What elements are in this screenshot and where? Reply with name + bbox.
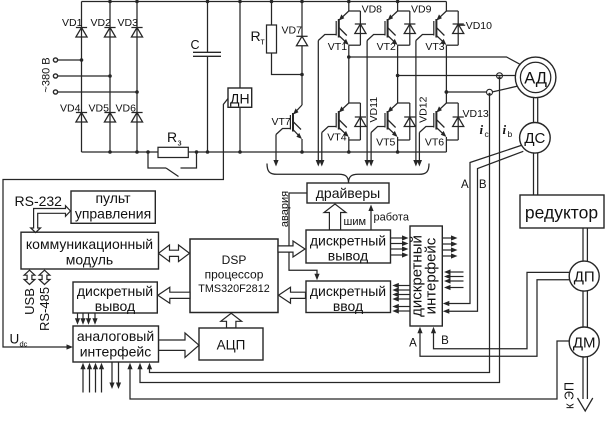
arrow дискретный вывод to интерфейс bbox=[391, 243, 404, 245]
block коммуникационный модуль bbox=[21, 232, 159, 269]
svg-text:т: т bbox=[261, 37, 265, 47]
wire: inverter leg 3 midpoint bbox=[445, 45, 447, 103]
svg-text:VD9: VD9 bbox=[411, 4, 432, 16]
svg-text:VT3: VT3 bbox=[425, 41, 444, 53]
wire: VT1 gate to drivers bbox=[317, 41, 319, 162]
wire: bottom DC bus rail (left of Rz) bbox=[82, 151, 159, 153]
arrow дискретный вывод to аналоговый интерфейс bbox=[82, 313, 84, 320]
svg-text:VD4: VD4 bbox=[60, 103, 81, 115]
diode VD10 (freewheel top) bbox=[457, 11, 459, 45]
svg-text:ДМ: ДМ bbox=[573, 334, 596, 351]
block дискретный вывод (левый) bbox=[73, 282, 157, 313]
svg-text:АЦП: АЦП bbox=[217, 338, 246, 353]
svg-text:з: з bbox=[178, 138, 182, 148]
block пульт управления bbox=[71, 191, 155, 223]
arrow external input to интерфейс bbox=[449, 287, 464, 289]
wire: VT2 gate to drivers bbox=[366, 41, 368, 162]
processor DSP TMS320F2812 bbox=[190, 239, 278, 313]
svg-text:В: В bbox=[479, 179, 487, 191]
wire: ib to analog interface bbox=[140, 79, 500, 383]
svg-text:VT7: VT7 bbox=[272, 116, 291, 128]
diode VD12 (freewheel bottom) bbox=[398, 102, 410, 104]
arrow интерфейс to дискретный ввод bbox=[397, 298, 410, 300]
shaft ДС-редуктор bbox=[533, 153, 535, 195]
transistor VT4 bbox=[340, 103, 349, 111]
svg-text:коммуникационный: коммуникационный bbox=[26, 236, 153, 252]
wire: inverter leg 1 top connection bbox=[348, 2, 350, 12]
transistor VT1 bbox=[340, 11, 349, 19]
shaft АД-ДС bbox=[533, 98, 535, 123]
svg-text:RS-485: RS-485 bbox=[37, 287, 52, 331]
diode VD4 bbox=[76, 112, 87, 114]
svg-text:пульт: пульт bbox=[95, 190, 131, 206]
wire: авария from драйверы to дискретный ввод bbox=[289, 193, 317, 275]
svg-text:VD1: VD1 bbox=[62, 17, 83, 29]
transistor VT7 (brake chopper IGBT) bbox=[301, 75, 303, 106]
shaft output к ЭП (open arrow) bbox=[582, 357, 584, 399]
svg-text:R: R bbox=[251, 28, 261, 44]
arrow интерфейс output right bbox=[442, 255, 452, 257]
diode VD11 (freewheel bottom) bbox=[349, 102, 361, 104]
shaft редуктор-ДП bbox=[582, 228, 584, 261]
svg-text:А: А bbox=[461, 179, 469, 191]
svg-text:VD2: VD2 bbox=[91, 17, 112, 29]
diode VD13 (freewheel bottom) bbox=[446, 102, 458, 104]
wire: ДС output B bbox=[447, 151, 523, 311]
input terminal L2 bbox=[53, 74, 57, 78]
block дискретный ввод bbox=[306, 281, 391, 313]
wire: phase C to motor bbox=[446, 91, 486, 93]
analog input line bbox=[95, 367, 97, 393]
svg-text:VD12: VD12 bbox=[418, 96, 430, 122]
svg-text:VT2: VT2 bbox=[377, 41, 396, 53]
bypass contactor switch across Rз bbox=[148, 152, 166, 168]
diode VD9 (freewheel top) bbox=[409, 11, 411, 45]
hollow arrow DSP - дискретный вывод (left) bbox=[158, 287, 190, 303]
arrow интерфейс to дискретный ввод bbox=[397, 285, 410, 287]
svg-text:вывод: вывод bbox=[95, 298, 135, 314]
svg-text:шим: шим bbox=[344, 216, 367, 228]
analog output line bbox=[118, 362, 120, 384]
wire: rectifier leg 1 bbox=[81, 2, 83, 153]
arrow дискретный вывод to аналоговый интерфейс bbox=[88, 313, 90, 320]
diode VD3 bbox=[131, 27, 142, 29]
wire: ДП output 2 (A) to discrete interface bbox=[420, 280, 569, 357]
svg-text:АД: АД bbox=[524, 69, 547, 87]
arrow дискретный вывод to интерфейс bbox=[391, 248, 404, 250]
wire: phase B to motor bbox=[398, 75, 521, 77]
svg-text:DSP: DSP bbox=[222, 253, 247, 267]
arrow интерфейс output right bbox=[442, 237, 452, 239]
arrow external input to интерфейс bbox=[449, 271, 464, 273]
arrow external input to интерфейс bbox=[449, 280, 464, 282]
input terminal L3 bbox=[53, 90, 57, 94]
wire: inverter leg 3 top connection bbox=[445, 2, 447, 12]
svg-text:к ЭП: к ЭП bbox=[563, 382, 577, 409]
arrow интерфейс output right bbox=[442, 243, 452, 245]
transistor VT3 bbox=[438, 11, 447, 19]
wire: VT6 gate to drivers bbox=[418, 133, 420, 162]
arrow интерфейс to дискретный ввод bbox=[397, 306, 410, 308]
svg-text:VT6: VT6 bbox=[425, 137, 444, 149]
wire: ДС output A bbox=[447, 145, 521, 303]
wire: ДМ output to analog interface bbox=[130, 341, 569, 399]
svg-text:i: i bbox=[480, 122, 484, 137]
gearbox редуктор bbox=[520, 195, 604, 228]
junction on bottom rail at leg2 bbox=[108, 150, 112, 154]
hollow arrow USB bbox=[24, 270, 35, 284]
wire: ic to analog interface bbox=[150, 95, 490, 372]
resistor Rт (brake resistor) bbox=[271, 2, 273, 26]
svg-text:VD11: VD11 bbox=[368, 97, 380, 123]
svg-text:ДП: ДП bbox=[574, 269, 595, 286]
torque sensor ДМ bbox=[569, 327, 599, 357]
svg-text:VT5: VT5 bbox=[376, 137, 395, 149]
wire: VT7 gate to drivers bbox=[275, 135, 277, 162]
svg-text:модуль: модуль bbox=[66, 252, 113, 268]
svg-text:ДН: ДН bbox=[230, 91, 250, 107]
hollow arrow аналоговый интерфейс - АЦП bbox=[159, 333, 200, 357]
diode VD8 (freewheel top) bbox=[359, 11, 361, 45]
svg-text:RS-232: RS-232 bbox=[15, 193, 63, 209]
wire: inverter leg 2 midpoint bbox=[397, 45, 399, 103]
analog input line bbox=[101, 367, 103, 393]
motor АД (induction motor) bbox=[515, 57, 556, 98]
hollow arrow дискретный ввод - DSP bbox=[279, 287, 306, 303]
svg-text:i: i bbox=[503, 122, 507, 137]
arrow external input to интерфейс bbox=[449, 276, 464, 278]
diode VD5 bbox=[104, 112, 115, 114]
svg-text:работа: работа bbox=[374, 212, 410, 224]
svg-text:~380 В: ~380 В bbox=[41, 57, 53, 92]
svg-text:интерфейс: интерфейс bbox=[423, 237, 440, 314]
svg-text:VT4: VT4 bbox=[327, 132, 346, 144]
wire: VT3 gate to drivers bbox=[415, 41, 417, 162]
arrow работа to драйверы bbox=[370, 210, 372, 231]
resistor Rз (charging resistor in DC bus) bbox=[158, 147, 188, 157]
svg-text:VD5: VD5 bbox=[89, 103, 110, 115]
svg-text:C: C bbox=[191, 38, 200, 52]
current sensor tap ib on phase B bbox=[497, 73, 503, 79]
diode VD6 bbox=[131, 112, 142, 114]
svg-text:вывод: вывод bbox=[328, 248, 368, 264]
svg-text:VD3: VD3 bbox=[118, 17, 139, 29]
analog input line bbox=[82, 367, 84, 393]
svg-text:аналоговый: аналоговый bbox=[77, 328, 154, 344]
svg-text:VD8: VD8 bbox=[362, 4, 383, 16]
wire: ДП output 1 (B) to discrete interface bbox=[434, 272, 570, 348]
shaft ДП-ДМ bbox=[582, 291, 584, 327]
analog output line bbox=[111, 362, 113, 384]
hollow arrow RS-485 bbox=[39, 270, 50, 284]
wire: inverter leg 2 top connection bbox=[397, 2, 399, 12]
brace: gate leads to драйверы bbox=[267, 164, 429, 184]
svg-text:VD7: VD7 bbox=[282, 25, 303, 37]
block дискретный вывод bbox=[306, 230, 391, 263]
diode VD7 (brake) bbox=[301, 2, 303, 37]
junctions on bottom rail at inverter legs bbox=[347, 150, 351, 154]
block дискретный интерфейс bbox=[410, 226, 442, 326]
arrow интерфейс output right bbox=[442, 249, 452, 251]
voltage sensor ДН bbox=[239, 2, 241, 89]
input terminal L1 bbox=[53, 58, 57, 62]
block драйверы bbox=[307, 183, 389, 203]
wire: ДН output to analog interface (Udc) bbox=[3, 99, 228, 348]
svg-text:VT1: VT1 bbox=[328, 41, 347, 53]
block АЦП bbox=[199, 328, 263, 360]
diode VD1 bbox=[76, 27, 87, 29]
capacitor C (DC link) bbox=[207, 2, 209, 53]
svg-text:U: U bbox=[10, 332, 20, 347]
svg-text:USB: USB bbox=[22, 288, 37, 315]
hollow arrow коммуникационный модуль - DSP bbox=[159, 245, 190, 262]
junction on bottom rail at leg3 bbox=[135, 150, 139, 154]
svg-text:управления: управления bbox=[75, 206, 151, 222]
svg-text:ДС: ДС bbox=[524, 130, 545, 147]
svg-text:В: В bbox=[441, 335, 449, 347]
svg-text:VD13: VD13 bbox=[463, 108, 489, 120]
diode VD2 bbox=[104, 27, 115, 29]
arrow дискретный вывод to интерфейс bbox=[391, 237, 404, 239]
svg-text:дискретный: дискретный bbox=[310, 283, 386, 299]
svg-text:дискретный: дискретный bbox=[310, 233, 386, 249]
arrow дискретный вывод to аналоговый интерфейс bbox=[77, 313, 79, 320]
wire: phase A to motor bbox=[349, 57, 525, 67]
wire: VT4 gate to drivers bbox=[321, 133, 323, 162]
hollow arrow АЦП - DSP bbox=[221, 313, 242, 328]
speed sensor ДС bbox=[520, 123, 551, 154]
svg-text:А: А bbox=[409, 338, 417, 350]
hollow arrow DSP - дискретный вывод bbox=[278, 241, 305, 257]
hollow elbow arrow RS-232 (модуль - пульт) bbox=[31, 206, 71, 233]
wire: VT5 gate to drivers bbox=[370, 133, 372, 162]
svg-text:VD10: VD10 bbox=[466, 20, 492, 32]
wire: rectifier leg 2 bbox=[109, 2, 111, 153]
transistor VT5 bbox=[389, 103, 398, 111]
svg-text:b: b bbox=[508, 129, 513, 139]
position sensor ДП bbox=[569, 261, 599, 291]
hollow arrow шим (PWM) to драйверы bbox=[324, 204, 346, 230]
wire: top DC bus rail bbox=[82, 1, 447, 3]
svg-text:интерфейс: интерфейс bbox=[80, 344, 152, 360]
svg-text:авария: авария bbox=[279, 191, 291, 227]
arrow дискретный вывод to интерфейс bbox=[391, 254, 404, 256]
svg-text:драйверы: драйверы bbox=[316, 185, 380, 201]
svg-text:процессор: процессор bbox=[205, 268, 264, 282]
svg-text:дискретный: дискретный bbox=[77, 283, 153, 299]
svg-text:dc: dc bbox=[20, 340, 28, 349]
current sensor tap ic on phase C bbox=[487, 89, 493, 95]
arrow интерфейс to дискретный ввод bbox=[397, 294, 410, 296]
block аналоговый интерфейс bbox=[73, 326, 159, 362]
svg-text:R: R bbox=[167, 129, 177, 145]
arrow интерфейс to дискретный ввод bbox=[397, 289, 410, 291]
wire: rectifier leg 3 bbox=[136, 2, 138, 153]
svg-text:редуктор: редуктор bbox=[525, 203, 598, 223]
svg-text:VD6: VD6 bbox=[116, 103, 137, 115]
wire: inverter leg 1 midpoint bbox=[348, 45, 350, 103]
arrow интерфейс to дискретный ввод bbox=[397, 310, 410, 312]
transistor VT6 bbox=[438, 103, 447, 111]
wire: bottom DC bus rail (right of Rz) bbox=[188, 151, 446, 153]
svg-text:TMS320F2812: TMS320F2812 bbox=[198, 283, 269, 295]
transistor VT2 bbox=[389, 11, 398, 19]
svg-text:ввод: ввод bbox=[333, 298, 363, 314]
arrow дискретный вывод to аналоговый интерфейс bbox=[94, 313, 96, 320]
analog input line bbox=[89, 367, 91, 393]
